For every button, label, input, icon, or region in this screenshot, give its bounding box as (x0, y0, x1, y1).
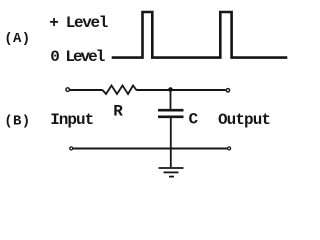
wire capacitor to ground (170, 118, 172, 167)
wire input to resistor (70, 89, 103, 91)
svg-text:R: R (113, 102, 123, 120)
svg-text:Output: Output (218, 111, 271, 129)
ground (159, 168, 184, 177)
svg-text:(B): (B) (4, 114, 30, 130)
svg-text:C: C (189, 111, 199, 129)
svg-text:0 Level: 0 Level (50, 48, 105, 66)
waveform pulse train (A) (113, 12, 286, 58)
svg-text:Input: Input (50, 111, 94, 129)
output terminal bottom (228, 147, 231, 150)
resistor R (103, 86, 137, 95)
node junction dot (168, 87, 173, 92)
bottom wire input to output (73, 148, 227, 150)
wire junction to capacitor (170, 90, 172, 109)
capacitor C (158, 110, 184, 117)
output terminal top (226, 89, 229, 92)
svg-text:+ Level: + Level (49, 14, 108, 32)
svg-text:(A): (A) (4, 31, 30, 47)
wire resistor to output terminal (137, 89, 226, 91)
input terminal top (66, 88, 70, 92)
input terminal bottom (70, 147, 73, 150)
